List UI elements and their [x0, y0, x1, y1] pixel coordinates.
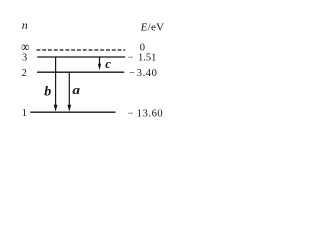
svg-text:13.60: 13.60 [137, 109, 163, 120]
transition arrow b shaft (n=3 to n=1) [55, 58, 57, 107]
infinity level line (dashed, E = 0) [36, 49, 125, 51]
svg-text:1.51: 1.51 [138, 53, 156, 64]
svg-text:2: 2 [22, 68, 27, 79]
transition arrow a shaft (n=2 to n=1) [68, 73, 70, 106]
transition arrow b head [54, 105, 58, 112]
transition arrow a head [67, 105, 71, 112]
transition arrow c shaft (n=3 to n=2) [99, 58, 101, 65]
svg-text:a: a [72, 83, 80, 98]
svg-text:b: b [44, 85, 51, 100]
n=2 level line (E = -3.40) [37, 71, 124, 73]
svg-text:3.40: 3.40 [137, 68, 158, 79]
svg-text:3: 3 [22, 52, 27, 63]
svg-text:c: c [105, 56, 111, 71]
svg-text:n: n [22, 18, 28, 32]
svg-text:−: − [128, 53, 134, 64]
svg-text:−: − [128, 109, 134, 120]
svg-text:−: − [129, 68, 135, 79]
svg-text:E/eV: E/eV [140, 22, 165, 34]
n=1 level line (E = -13.60) [30, 111, 115, 113]
transition arrow c head [98, 64, 101, 70]
svg-text:1: 1 [22, 108, 27, 119]
n=3 level line (E = -1.51) [37, 56, 125, 58]
